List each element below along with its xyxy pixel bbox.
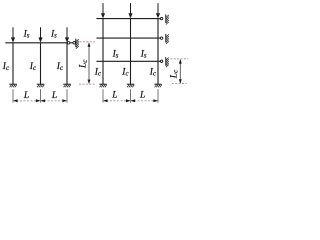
left link bar <box>70 42 73 44</box>
right bay2 arrow right <box>153 99 158 102</box>
label Lc right frame <box>169 70 179 79</box>
left dim extension line <box>12 89 14 102</box>
left fixed support 1 <box>9 83 16 85</box>
left frame beam <box>5 42 67 44</box>
right bay1 arrow left <box>103 99 108 102</box>
left dim extension line <box>66 89 68 102</box>
right column 2 <box>130 19 132 85</box>
right load arrow 3 <box>157 3 159 15</box>
right link hinge level 3 <box>160 60 162 62</box>
right bay2 arrow left <box>131 99 136 102</box>
right load arrow 2 <box>130 3 132 15</box>
left bay2 arrow left <box>41 99 46 102</box>
right bay1 arrow right <box>126 99 131 102</box>
left dim extension line <box>40 89 42 102</box>
left bay1 arrow right <box>36 99 41 102</box>
right dim line bay2 <box>131 100 159 102</box>
left link hinge 1 <box>67 42 70 45</box>
right link hinge level 2 <box>160 37 162 39</box>
left load arrow 3 <box>66 27 68 39</box>
right Lc top tick <box>170 58 188 60</box>
right lateral wall support level 1 <box>165 14 167 23</box>
left load arrow 2 <box>40 27 42 39</box>
right frame beam 2 <box>96 37 158 39</box>
right Lc dim line <box>179 60 181 84</box>
right column 3 <box>157 19 159 85</box>
left column 2 <box>40 43 42 84</box>
left Lc bottom tick <box>79 83 96 85</box>
left bay1 arrow left <box>13 99 18 102</box>
svg-text:L: L <box>51 91 57 101</box>
left bay2 arrow right <box>62 99 67 102</box>
right column 1 <box>102 19 104 85</box>
svg-text:L: L <box>23 91 29 101</box>
right link bar level 2 <box>158 37 160 39</box>
left lateral wall support <box>75 39 77 48</box>
label Lc left frame <box>79 60 89 69</box>
right Lc down arrow <box>179 79 182 83</box>
right dim extension line <box>157 89 159 102</box>
left dim line bay1 <box>13 100 41 102</box>
right link hinge level 1 <box>160 17 162 19</box>
left Lc up arrow <box>88 42 91 46</box>
right fixed support 3 <box>154 83 161 85</box>
left dim line bay2 <box>41 100 68 102</box>
svg-text:L: L <box>139 91 145 101</box>
right frame beam 1 <box>96 18 158 20</box>
right fixed support 2 <box>127 83 134 85</box>
right fixed support 1 <box>99 83 106 85</box>
left Lc dim line <box>88 43 90 83</box>
right lateral wall support level 2 <box>165 34 167 43</box>
right frame beam 3 <box>96 60 158 62</box>
left column 1 <box>12 43 14 84</box>
right link bar level 1 <box>158 18 160 20</box>
right dim line bay1 <box>103 100 131 102</box>
right load arrow 1 <box>102 3 104 15</box>
right Lc bottom tick <box>172 83 187 85</box>
left link stub <box>66 42 68 44</box>
left link hinge 2 <box>73 42 76 45</box>
left fixed support 3 <box>63 83 70 85</box>
right dim extension line <box>102 89 104 102</box>
right lateral wall support level 3 <box>165 57 167 66</box>
left fixed support 2 <box>37 83 44 85</box>
right dim extension line <box>130 89 132 102</box>
left Lc down arrow <box>88 80 91 84</box>
svg-text:L: L <box>111 91 117 101</box>
left Lc top tick <box>80 41 96 43</box>
left load arrow 1 <box>12 27 14 39</box>
left column 3 <box>66 43 68 84</box>
right Lc up arrow <box>179 59 182 63</box>
right link bar level 3 <box>158 60 160 62</box>
